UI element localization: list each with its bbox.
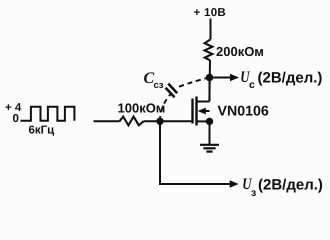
svg-text:200кОм: 200кОм <box>216 44 264 59</box>
svg-text:(2В/дел.): (2В/дел.) <box>258 70 323 87</box>
label Uc (2V/div) <box>240 69 322 91</box>
arrow Uc output <box>213 74 239 81</box>
wire input to 100k resistor <box>94 120 120 122</box>
drain lead <box>209 78 211 102</box>
wire from resistor to drain node <box>208 60 211 102</box>
resistor 200kOhm <box>205 40 264 61</box>
svg-text:+ 10В: + 10В <box>194 7 227 19</box>
node: gate junction <box>156 118 163 125</box>
label Uz (2V/div) <box>242 176 323 199</box>
dashed wire: capacitor to drain node <box>179 78 210 87</box>
wire source to ground <box>209 121 211 144</box>
capacitor Ccз label <box>144 70 164 91</box>
node: drain junction <box>206 74 214 82</box>
wire 100k resistor to gate <box>144 120 193 122</box>
svg-text:сз: сз <box>154 80 164 91</box>
input square wave <box>5 102 74 137</box>
gate bar <box>191 99 193 124</box>
wire gate node down to Uz arrow <box>160 121 232 184</box>
dashed wire: gate node to capacitor <box>160 94 171 121</box>
drain stub <box>197 101 210 103</box>
wire from +10V to resistor <box>210 19 212 40</box>
source stub <box>197 120 210 122</box>
arrow Uz output <box>230 180 239 187</box>
power rail +10V label <box>194 7 227 19</box>
resistor 100kOhm <box>118 101 166 126</box>
ground <box>200 145 219 152</box>
body arrow <box>204 110 210 112</box>
channel bar <box>195 97 197 126</box>
svg-text:(2В/дел.): (2В/дел.) <box>258 177 323 194</box>
svg-text:0: 0 <box>13 113 19 125</box>
svg-text:з: з <box>251 187 256 199</box>
svg-text:c: c <box>249 79 255 91</box>
node: source junction <box>206 118 213 125</box>
svg-text:100кОм: 100кОм <box>118 101 166 116</box>
svg-text:6кГц: 6кГц <box>29 125 55 137</box>
capacitor Ccз plates <box>166 84 178 98</box>
transistor Q1 VN0106 MOSFET <box>193 78 269 126</box>
svg-text:VN0106: VN0106 <box>218 104 269 120</box>
